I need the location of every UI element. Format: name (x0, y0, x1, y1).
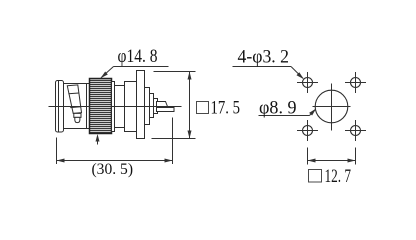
left flange (front bezel) (56, 81, 64, 133)
dimension phi 14.8 leader line (114, 66, 169, 68)
step 2 (150, 94, 154, 118)
svg-text:φ8. 9: φ8. 9 (259, 98, 297, 119)
neck groove (115, 86, 125, 128)
panel view: center circle (315, 90, 348, 123)
svg-text:(30. 5): (30. 5) (92, 161, 134, 178)
center circle vertical centerline (331, 84, 333, 131)
mounting flange (137, 71, 145, 139)
label 4-phi3.2 leader (233, 66, 292, 68)
dimension 30.5 left extension line (56, 138, 58, 165)
dimension phi 14.8 arrowhead (101, 72, 108, 79)
rear cylinder (125, 82, 137, 132)
label phi8.9 leader (259, 115, 310, 117)
dimension 17.5 line (189, 72, 191, 139)
dimension 30.5 left arrowhead (57, 159, 65, 163)
dimension 30.5 right arrowhead (165, 159, 173, 163)
knurl bottom arrow (97, 140, 99, 145)
svg-text:φ14. 8: φ14. 8 (118, 46, 158, 67)
svg-text:17. 5: 17. 5 (211, 98, 241, 119)
dimension 12.7 right arrowhead (348, 159, 356, 163)
dimension square 12.7 symbol (309, 170, 322, 183)
dimension 30.5 right extension line (172, 118, 174, 165)
svg-text:12. 7: 12. 7 (325, 166, 352, 187)
dimension 30.5 line (57, 160, 173, 162)
connector body (64, 84, 90, 129)
hole bottom-left (303, 126, 313, 136)
dimension 17.5 top extension line (154, 71, 196, 73)
insulator tab above pin (157, 102, 168, 107)
dimension 12.7 left extension line (307, 148, 309, 165)
hole bottom-right (351, 126, 361, 136)
svg-text:4-φ3. 2: 4-φ3. 2 (238, 47, 290, 68)
dimension 12.7 line (308, 160, 356, 162)
dimension 12.7 right extension line (355, 148, 357, 165)
left flange inner face line (58, 81, 60, 132)
hole top-right (351, 78, 361, 88)
dimension square 17.5 symbol (197, 102, 209, 114)
center circle horizontal centerline (313, 106, 351, 108)
step 3 (154, 99, 158, 114)
solder lug (157, 108, 175, 112)
bayonet slot (67, 85, 81, 123)
dimension 17.5 bottom extension line (152, 138, 196, 140)
dimension 17.5 top arrowhead (188, 72, 192, 80)
body washer line (86, 84, 88, 129)
dimension 12.7 left arrowhead (308, 159, 316, 163)
centerline of side view (49, 106, 182, 108)
washer behind knurl (112, 82, 115, 132)
label 4-phi3.2 arrowhead (297, 72, 304, 79)
step 1 (145, 88, 150, 125)
dimension 17.5 bottom arrowhead (188, 131, 192, 139)
hole top-left (303, 78, 313, 88)
knurled coupling nut (90, 79, 112, 134)
label phi8.9 arrowhead (309, 109, 316, 116)
